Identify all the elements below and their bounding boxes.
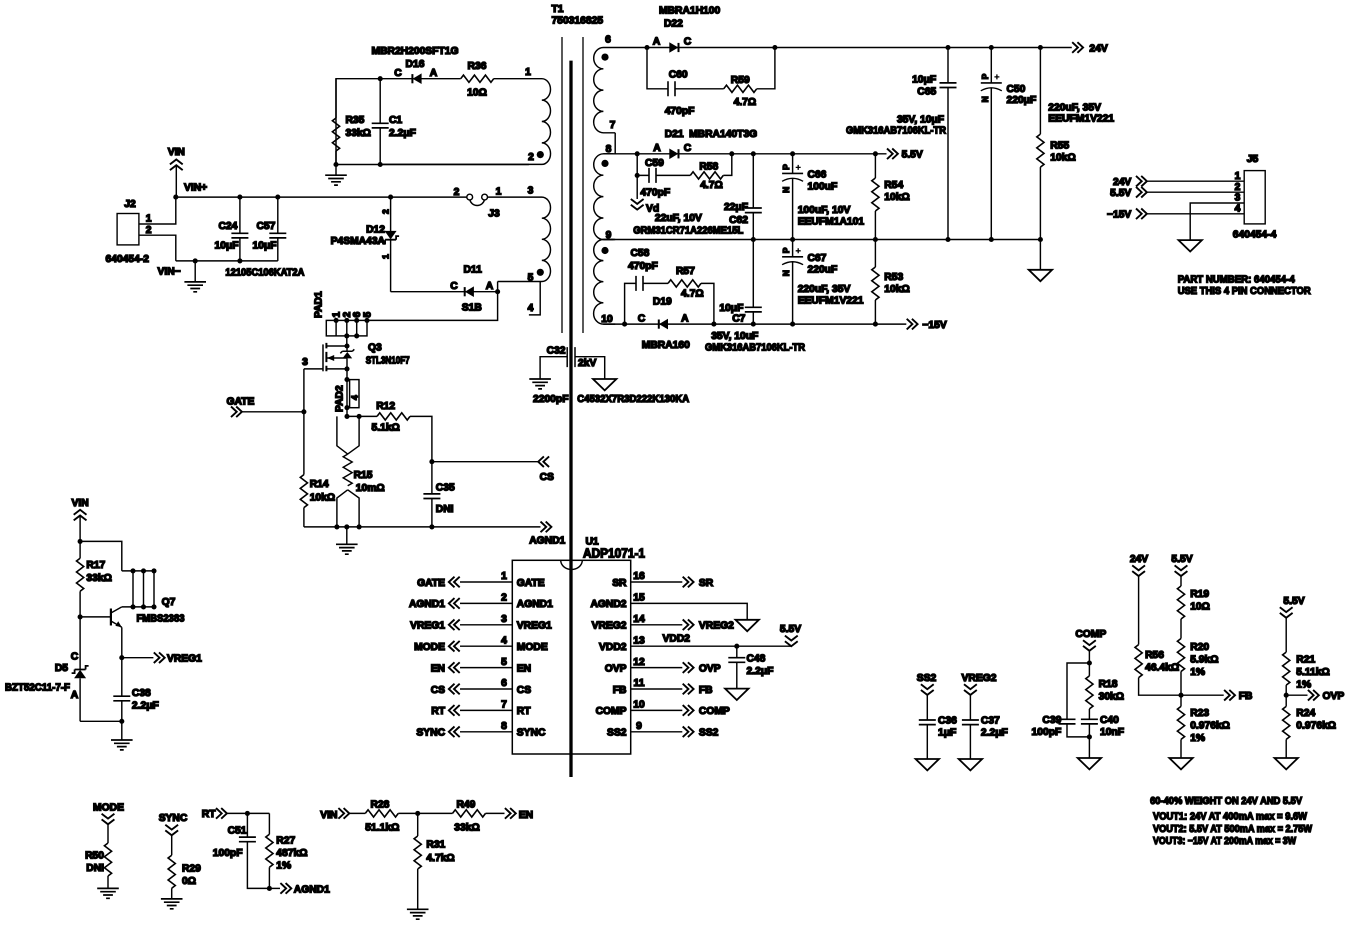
svg-text:4: 4 <box>528 303 534 314</box>
svg-text:EN: EN <box>431 663 445 674</box>
resistor R31 4.7k <box>414 813 455 909</box>
svg-text:2: 2 <box>1235 182 1241 193</box>
svg-text:STL3N10F7: STL3N10F7 <box>366 356 410 367</box>
svg-text:OVP: OVP <box>699 663 721 674</box>
svg-text:12: 12 <box>633 657 645 668</box>
svg-text:R29: R29 <box>182 864 201 875</box>
svg-text:D16: D16 <box>406 59 425 70</box>
svg-text:0.976kΩ: 0.976kΩ <box>1190 721 1230 732</box>
svg-text:2: 2 <box>501 593 507 604</box>
net flag SS2 <box>917 673 937 720</box>
zener D12 P4SMA43A <box>331 197 399 292</box>
resistor R49 33k <box>453 800 505 834</box>
svg-text:C35: C35 <box>436 483 455 494</box>
svg-text:6: 6 <box>501 678 507 689</box>
svg-text:GMK316AB7106KL-TR: GMK316AB7106KL-TR <box>846 126 947 137</box>
svg-text:2: 2 <box>146 225 152 236</box>
capacitor C67 220uF polarized <box>781 240 864 325</box>
pin 4 MODE <box>414 635 548 653</box>
op-amp U1 ADP1071-1 <box>512 537 645 755</box>
svg-text:640454-4: 640454-4 <box>1233 230 1277 241</box>
svg-text:R23: R23 <box>1190 708 1209 719</box>
svg-text:R21: R21 <box>1296 655 1315 666</box>
svg-text:SS2: SS2 <box>607 728 627 739</box>
resistor R18 30k <box>1086 663 1124 719</box>
ground (COMP filter) <box>1078 758 1101 769</box>
svg-text:R27: R27 <box>276 836 295 847</box>
resistor R19 10 ohm <box>1177 586 1210 639</box>
svg-text:AGND1: AGND1 <box>529 536 565 547</box>
svg-text:3: 3 <box>302 357 308 368</box>
svg-text:220μF: 220μF <box>1007 95 1037 106</box>
capacitor C57 10uF <box>253 197 287 261</box>
svg-text:9: 9 <box>636 721 642 732</box>
svg-text:CS: CS <box>540 472 554 483</box>
svg-text:EEUFM1V221: EEUFM1V221 <box>798 296 864 307</box>
resistor R35 33k <box>332 79 371 165</box>
svg-text:33kΩ: 33kΩ <box>454 823 479 834</box>
pin 9 SS2 <box>607 721 719 739</box>
svg-text:R20: R20 <box>1190 642 1209 653</box>
capacitor C65 10uF <box>846 48 957 240</box>
svg-text:10nF: 10nF <box>1100 727 1124 738</box>
resistor R24 0.976k <box>1283 695 1336 758</box>
svg-text:EEUFM1V221: EEUFM1V221 <box>1048 114 1114 125</box>
svg-text:C62: C62 <box>729 215 748 226</box>
svg-text:GRM31CR71A226ME15L: GRM31CR71A226ME15L <box>633 226 743 237</box>
svg-text:30kΩ: 30kΩ <box>1099 692 1124 703</box>
svg-text:C: C <box>684 37 692 48</box>
junction dots snubber <box>378 76 383 81</box>
svg-text:10kΩ: 10kΩ <box>884 284 909 295</box>
svg-text:SR: SR <box>699 578 714 589</box>
jumper J3 <box>454 187 502 220</box>
svg-text:A: A <box>430 68 438 79</box>
svg-text:P4SMA43A: P4SMA43A <box>331 236 386 247</box>
svg-text:SYNC: SYNC <box>416 728 445 739</box>
pin 8 SYNC <box>416 721 546 739</box>
svg-text:VOUT3: −15V AT 200mA max = 3W: VOUT3: −15V AT 200mA max = 3W <box>1153 836 1296 847</box>
svg-text:R28: R28 <box>371 800 390 811</box>
ground (VREG1) <box>111 721 133 750</box>
svg-text:22μF: 22μF <box>724 202 748 213</box>
svg-text:5: 5 <box>528 273 534 284</box>
svg-text:5.5V: 5.5V <box>780 624 801 635</box>
svg-text:C1: C1 <box>389 115 402 126</box>
svg-text:12105C106KAT2A: 12105C106KAT2A <box>225 268 305 279</box>
wire J2 pin2 to VIN- <box>139 235 176 261</box>
svg-text:4: 4 <box>350 395 360 400</box>
svg-text:5: 5 <box>363 312 374 318</box>
svg-text:1μF: 1μF <box>938 728 956 739</box>
snubber top wire <box>336 79 494 165</box>
svg-text:2: 2 <box>381 209 391 214</box>
svg-text:0.976kΩ: 0.976kΩ <box>1296 721 1336 732</box>
pad PAD2 pin 4 <box>335 369 360 417</box>
net flag Vd <box>631 175 659 214</box>
ground (R15) <box>336 527 358 554</box>
wire D11 junction down to PAD1 bus <box>367 292 498 321</box>
svg-text:R15: R15 <box>354 470 373 481</box>
svg-text:5.11kΩ: 5.11kΩ <box>1296 667 1329 678</box>
pin 11 FB <box>613 678 713 696</box>
resistor R20 5.9k 1% <box>1177 639 1218 696</box>
svg-text:J2: J2 <box>124 199 136 210</box>
resistor R27 487k 1% <box>266 813 308 888</box>
svg-text:VOUT1: 24V AT 400mA max = 9.6W: VOUT1: 24V AT 400mA max = 9.6W <box>1153 812 1307 823</box>
diode D11 S1B <box>391 265 498 314</box>
svg-text:VIN+: VIN+ <box>184 183 207 194</box>
svg-text:C7: C7 <box>732 314 745 325</box>
diode D19 MBRA160 <box>638 297 690 352</box>
svg-text:EN: EN <box>517 663 531 674</box>
resistor R59 4.7 ohm <box>724 48 775 109</box>
svg-text:RT: RT <box>517 706 531 717</box>
svg-text:1: 1 <box>501 571 507 582</box>
wire J2 pin1 to VIN+ <box>139 197 176 224</box>
svg-text:10mΩ: 10mΩ <box>356 483 385 494</box>
svg-text:A: A <box>486 281 494 292</box>
svg-text:1: 1 <box>1235 171 1241 182</box>
capacitor C60 470pF <box>647 48 724 118</box>
capacitor C62 22uF <box>724 154 762 240</box>
ground (R50) <box>97 888 119 898</box>
svg-text:AGND1: AGND1 <box>409 599 445 610</box>
svg-text:VDD2: VDD2 <box>663 634 691 645</box>
transformer T1 750316825 <box>380 4 615 777</box>
primary winding 3-5 <box>487 197 550 281</box>
svg-text:SYNC: SYNC <box>517 728 546 739</box>
off-page connector 24V (J5) <box>1113 176 1244 188</box>
svg-text:GATE: GATE <box>517 578 545 589</box>
svg-text:−15V: −15V <box>1107 210 1131 221</box>
svg-text:100pF: 100pF <box>213 848 243 859</box>
pin 2 AGND1 <box>409 593 553 611</box>
svg-text:C58: C58 <box>631 248 650 259</box>
svg-text:10: 10 <box>601 314 613 325</box>
svg-text:C32: C32 <box>547 346 566 357</box>
svg-text:C: C <box>450 281 458 292</box>
svg-text:GMK316AB7106KL-TR: GMK316AB7106KL-TR <box>705 343 806 354</box>
svg-text:R36: R36 <box>468 61 487 72</box>
svg-text:AGND1: AGND1 <box>517 599 553 610</box>
svg-text:Q7: Q7 <box>162 597 176 608</box>
svg-text:A: A <box>653 143 661 154</box>
svg-text:C24: C24 <box>219 221 238 232</box>
svg-text:VREG2: VREG2 <box>592 621 627 632</box>
svg-text:GATE: GATE <box>227 397 255 408</box>
svg-text:A: A <box>653 37 661 48</box>
capacitor C24 10uF <box>215 197 249 261</box>
svg-text:ADP1071-1: ADP1071-1 <box>583 546 645 561</box>
power flag 5.5V (OVP divider) <box>1280 596 1305 652</box>
svg-text:1: 1 <box>332 312 343 318</box>
pin 14 VREG2 <box>592 614 735 632</box>
svg-text:VIN−: VIN− <box>158 267 181 278</box>
pin 5 EN <box>431 657 531 675</box>
svg-text:46.4kΩ: 46.4kΩ <box>1145 663 1179 674</box>
pin 3 VREG1 <box>410 614 552 632</box>
svg-text:R18: R18 <box>1099 679 1118 690</box>
svg-text:C: C <box>71 652 79 663</box>
svg-text:R19: R19 <box>1190 589 1209 600</box>
pin 10 COMP <box>596 700 730 718</box>
svg-text:1%: 1% <box>1190 733 1205 744</box>
svg-text:2200pF: 2200pF <box>533 394 569 405</box>
svg-text:2.2μF: 2.2μF <box>389 128 416 139</box>
svg-text:D22: D22 <box>664 19 683 30</box>
svg-text:13: 13 <box>633 635 645 646</box>
-15V output wire <box>603 323 906 325</box>
shunt resistor R15 10m ohm <box>337 416 385 527</box>
svg-text:J3: J3 <box>488 209 500 220</box>
svg-text:22uF, 10V: 22uF, 10V <box>655 213 702 224</box>
transistor Q7 FMBS2383 tied pins <box>122 568 185 624</box>
svg-text:33kΩ: 33kΩ <box>346 128 371 139</box>
svg-text:2.2μF: 2.2μF <box>747 666 774 677</box>
secondary winding 6-7 <box>594 48 616 133</box>
svg-text:2.2μF: 2.2μF <box>981 728 1008 739</box>
svg-text:C: C <box>684 143 692 154</box>
resistor R50 DNI <box>85 843 111 888</box>
ground (R29) <box>161 899 183 909</box>
svg-text:VDD2: VDD2 <box>599 642 627 653</box>
svg-text:4.7Ω: 4.7Ω <box>734 97 757 108</box>
svg-text:10kΩ: 10kΩ <box>1050 153 1075 164</box>
svg-text:24V: 24V <box>1089 44 1107 55</box>
ground (input) <box>184 261 206 292</box>
svg-text:2kV: 2kV <box>578 358 596 369</box>
svg-text:24V: 24V <box>1113 177 1131 188</box>
svg-text:C65: C65 <box>917 87 936 98</box>
off-page connector 5.5V (J5) <box>1110 187 1244 199</box>
resistor R14 10k <box>300 475 335 527</box>
capacitor C50 220uF polarized <box>980 48 1115 240</box>
svg-text:100uF, 10V: 100uF, 10V <box>798 205 851 216</box>
svg-text:220uF, 35V: 220uF, 35V <box>798 284 851 295</box>
svg-text:DNI: DNI <box>86 863 104 874</box>
capacitor C40 10nF <box>1081 715 1124 758</box>
resistor R17 33k <box>77 541 112 617</box>
connector J5 640454-4 <box>1233 154 1277 241</box>
svg-text:10Ω: 10Ω <box>1190 602 1210 613</box>
snubber bottom wire <box>336 164 529 166</box>
svg-text:C: C <box>638 313 646 324</box>
off-page connector VREG1 <box>119 652 202 664</box>
svg-text:A: A <box>681 313 689 324</box>
svg-text:FMBS2383: FMBS2383 <box>137 614 185 625</box>
svg-text:5.9kΩ: 5.9kΩ <box>1190 655 1218 666</box>
svg-text:D5: D5 <box>55 663 68 674</box>
svg-text:AGND2: AGND2 <box>590 599 626 610</box>
svg-text:10μF: 10μF <box>719 303 743 314</box>
resistor R23 0.976k 1% <box>1177 695 1230 758</box>
svg-text:C40: C40 <box>1100 715 1119 726</box>
wire joining pins 7 and 8 <box>614 133 616 154</box>
ground (OVP divider) <box>1275 758 1298 769</box>
svg-text:4: 4 <box>501 635 507 646</box>
capacitor C38 2.2uF <box>113 658 159 722</box>
svg-text:VIN: VIN <box>168 147 185 158</box>
svg-text:750316825: 750316825 <box>552 16 604 27</box>
svg-text:3: 3 <box>1235 193 1241 204</box>
svg-text:CS: CS <box>517 685 531 696</box>
svg-text:R17: R17 <box>86 560 105 571</box>
5.5V output wire <box>603 153 886 155</box>
svg-text:R53: R53 <box>884 272 903 283</box>
svg-text:470pF: 470pF <box>665 106 695 117</box>
wire VIN node to Q7 collector <box>80 541 122 571</box>
svg-text:10kΩ: 10kΩ <box>884 192 909 203</box>
svg-text:OVP: OVP <box>1323 691 1345 702</box>
svg-text:R55: R55 <box>1050 141 1069 152</box>
pin 12 OVP <box>605 657 721 675</box>
svg-text:D11: D11 <box>464 265 483 276</box>
svg-text:R24: R24 <box>1296 708 1315 719</box>
wire J5 pin3 to ground <box>1190 203 1244 240</box>
svg-text:4.7Ω: 4.7Ω <box>700 180 723 191</box>
resistor R21 5.11k 1% <box>1283 652 1330 695</box>
svg-text:3: 3 <box>501 614 507 625</box>
capacitor C36 1uF <box>919 716 957 760</box>
resistor R53 10k <box>872 240 910 325</box>
resistor R36 10 ohm <box>461 61 494 99</box>
resistor R12 5.1k <box>347 401 432 462</box>
zener D5 BZT52C11-7-F <box>5 617 89 721</box>
svg-text:10μF: 10μF <box>215 241 239 252</box>
capacitor C58 470pF <box>625 248 668 324</box>
svg-text:MBR2H200SFT1G: MBR2H200SFT1G <box>372 46 459 57</box>
ground (secondary rail) <box>1029 240 1052 282</box>
svg-text:60-40% WEIGHT ON 24V AND 5.5V: 60-40% WEIGHT ON 24V AND 5.5V <box>1150 796 1302 807</box>
capacitor C39 100pF <box>1032 663 1090 738</box>
svg-text:2.2μF: 2.2μF <box>132 701 159 712</box>
svg-text:R31: R31 <box>426 840 445 851</box>
transformer core lines <box>562 37 583 333</box>
svg-text:VREG2: VREG2 <box>962 673 997 684</box>
svg-text:5: 5 <box>501 657 507 668</box>
power flag 5.5V (FB divider) <box>1171 554 1192 586</box>
svg-text:RT: RT <box>202 809 216 820</box>
svg-text:33kΩ: 33kΩ <box>86 573 111 584</box>
svg-text:4.7Ω: 4.7Ω <box>681 289 704 300</box>
svg-text:SS2: SS2 <box>699 728 719 739</box>
capacitor C59 470pF <box>637 154 690 199</box>
svg-text:6: 6 <box>605 35 611 46</box>
svg-text:R58: R58 <box>699 162 718 173</box>
capacitor C7 10uF <box>705 240 806 354</box>
transistor Q7 BJT symbol <box>80 607 122 658</box>
svg-text:5.5V: 5.5V <box>1171 554 1192 565</box>
resistor R55 10k <box>1037 48 1076 240</box>
svg-text:PART NUMBER: 640454-4: PART NUMBER: 640454-4 <box>1178 274 1295 285</box>
svg-text:BZT52C11-7-F: BZT52C11-7-F <box>5 683 70 694</box>
resistor R54 10k <box>872 154 910 240</box>
pin 15 AGND2 <box>590 593 758 632</box>
24V output wire <box>614 47 1072 49</box>
svg-text:D19: D19 <box>653 297 672 308</box>
svg-text:470pF: 470pF <box>640 188 670 199</box>
svg-text:C60: C60 <box>669 70 688 81</box>
svg-text:USE THIS 4 PIN CONNECTOR: USE THIS 4 PIN CONNECTOR <box>1178 286 1312 297</box>
off-page connector 5.5V <box>887 149 923 161</box>
svg-text:S1B: S1B <box>462 303 482 314</box>
svg-text:R50: R50 <box>85 851 104 862</box>
ground (snubber) <box>325 165 347 186</box>
off-page connector AGND1 (RT filter) <box>269 883 330 895</box>
resistor R57 4.7 ohm <box>668 266 714 324</box>
wire D11 junction to pin5 <box>497 282 499 292</box>
off-page connector -15V (J5) <box>1107 209 1244 221</box>
svg-text:VIN: VIN <box>72 498 89 509</box>
svg-text:FB: FB <box>699 685 713 696</box>
svg-text:C48: C48 <box>747 654 766 665</box>
capacitor C66 100uF polarized <box>781 154 864 240</box>
svg-text:10μF: 10μF <box>912 75 936 86</box>
svg-text:5.5V: 5.5V <box>902 150 923 161</box>
svg-text:SR: SR <box>612 578 627 589</box>
svg-text:C66: C66 <box>808 170 827 181</box>
svg-text:MBRA160: MBRA160 <box>642 340 690 351</box>
svg-text:C36: C36 <box>938 716 957 727</box>
off-page connector VIN (EN divider) <box>320 808 365 821</box>
svg-text:C39: C39 <box>1042 715 1061 726</box>
AGND1 wire <box>304 526 541 528</box>
capacitor C48 2.2uF <box>725 646 773 700</box>
bottom wire to ground <box>80 720 122 722</box>
pin 16 SR <box>612 571 714 589</box>
pin 13 VDD2 <box>599 624 801 653</box>
secondary winding 8-9 <box>594 154 616 240</box>
svg-text:C: C <box>394 68 402 79</box>
isolation barrier <box>569 61 572 777</box>
svg-text:C37: C37 <box>981 716 1000 727</box>
pin 4 stub <box>529 282 540 315</box>
svg-text:MODE: MODE <box>517 642 548 653</box>
svg-text:16: 16 <box>633 571 645 582</box>
power flag VIN (VREG1 branch) <box>72 498 89 541</box>
svg-text:PAD1: PAD1 <box>314 291 325 318</box>
capacitor C35 DNI <box>423 462 455 527</box>
svg-text:10: 10 <box>633 700 645 711</box>
off-page connector CS <box>432 456 554 483</box>
svg-text:COMP: COMP <box>699 706 730 717</box>
secondary winding 9-10 <box>594 240 616 325</box>
off-page connector -15V <box>907 319 947 331</box>
svg-text:10kΩ: 10kΩ <box>310 493 335 504</box>
svg-text:MODE: MODE <box>414 642 445 653</box>
main input wire VIN+ to J3 <box>176 196 488 198</box>
off-page connector RT <box>202 808 270 820</box>
net flag COMP <box>1075 629 1106 663</box>
primary winding 1-2 <box>380 79 550 165</box>
svg-text:GATE: GATE <box>417 578 445 589</box>
svg-text:R59: R59 <box>731 75 750 86</box>
svg-text:R56: R56 <box>1145 650 1164 661</box>
capacitor C1 2.2uF <box>372 79 416 165</box>
svg-text:D12: D12 <box>366 225 385 236</box>
svg-text:−15V: −15V <box>922 320 946 331</box>
svg-text:C50: C50 <box>1007 84 1026 95</box>
svg-text:T1: T1 <box>552 4 564 15</box>
svg-text:VOUT2: 5.5V AT 500mA max = 2.7: VOUT2: 5.5V AT 500mA max = 2.75W <box>1153 824 1312 835</box>
svg-text:D21: D21 <box>665 129 684 140</box>
svg-text:487kΩ: 487kΩ <box>276 848 307 859</box>
wire gate node <box>303 369 305 475</box>
secondary common rail (pin 9) <box>603 239 1040 241</box>
svg-text:35V, 10μF: 35V, 10μF <box>897 115 944 126</box>
svg-text:5.5V: 5.5V <box>1110 188 1131 199</box>
